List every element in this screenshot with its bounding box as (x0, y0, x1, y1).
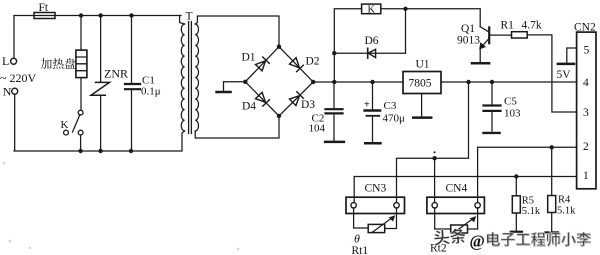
svg-text:@: @ (470, 232, 485, 251)
svg-text:C3: C3 (384, 100, 397, 112)
svg-text:+: + (364, 100, 370, 111)
svg-text:104: 104 (309, 123, 326, 135)
svg-text:2: 2 (583, 141, 589, 153)
svg-text:7805: 7805 (409, 78, 432, 90)
svg-text:CN2: CN2 (574, 22, 596, 34)
svg-text:470μ: 470μ (383, 113, 406, 125)
svg-text:CN3: CN3 (365, 183, 387, 195)
svg-text:1: 1 (583, 170, 589, 182)
svg-text:5.1k: 5.1k (522, 206, 541, 217)
svg-text:ZNR: ZNR (104, 67, 128, 81)
svg-text:4: 4 (583, 77, 589, 89)
svg-text:C5: C5 (504, 96, 517, 108)
svg-text:5V: 5V (557, 69, 572, 81)
svg-text:U1: U1 (416, 59, 430, 71)
svg-text:5.1k: 5.1k (557, 206, 576, 217)
svg-text:3: 3 (583, 107, 589, 119)
svg-text:D4: D4 (242, 101, 256, 113)
svg-text:9013: 9013 (457, 35, 480, 47)
svg-text:K: K (61, 119, 69, 131)
svg-text:Q1: Q1 (461, 23, 475, 35)
svg-text:CN4: CN4 (446, 183, 468, 195)
svg-text:D1: D1 (242, 52, 256, 64)
svg-text:4.7k: 4.7k (522, 20, 542, 32)
svg-text:Ft: Ft (39, 2, 49, 14)
svg-text:D2: D2 (306, 56, 320, 68)
svg-text:N: N (3, 85, 12, 99)
svg-text:R5: R5 (522, 196, 534, 207)
svg-text:Rt1: Rt1 (352, 245, 369, 255)
svg-text:R4: R4 (558, 195, 571, 206)
svg-text:T: T (186, 11, 193, 23)
svg-text:D6: D6 (365, 35, 379, 47)
svg-text:K: K (368, 5, 376, 16)
svg-text:103: 103 (504, 108, 521, 120)
svg-text:D3: D3 (301, 99, 315, 111)
svg-text:L: L (2, 54, 9, 68)
svg-text:5: 5 (584, 45, 590, 57)
svg-text:θ: θ (354, 232, 360, 246)
svg-text:~ 220V: ~ 220V (0, 71, 36, 85)
svg-text:R1: R1 (501, 20, 515, 32)
svg-text:0.1μ: 0.1μ (141, 86, 161, 98)
